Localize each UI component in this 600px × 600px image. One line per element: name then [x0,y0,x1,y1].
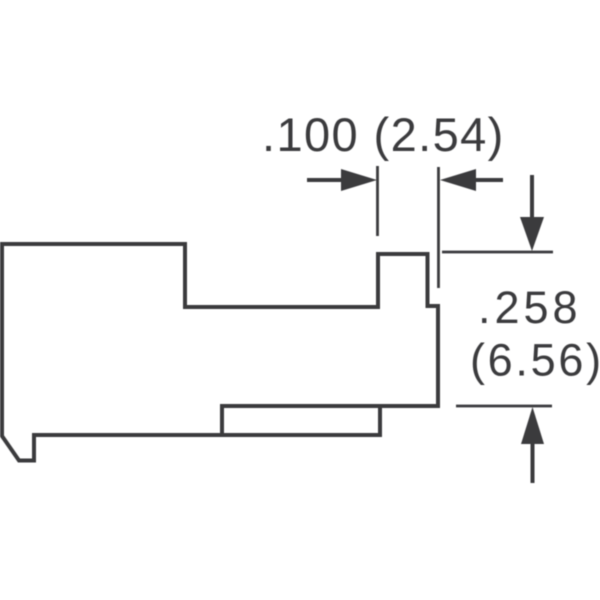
connector housing profile outline [2,244,438,461]
extension line right (x=438.5) [437,167,440,288]
svg-text:(6.56): (6.56) [470,335,600,386]
left arrow tail [307,178,344,182]
bottom reference line [456,405,552,408]
up arrowhead [521,407,544,444]
down arrow line [530,175,534,218]
svg-text:.258: .258 [478,282,582,333]
left arrowhead [341,169,377,191]
internal ledge edge [222,406,380,435]
down arrowhead [520,217,544,251]
extension line left (x=377.5) [376,166,379,236]
top reference line [442,251,553,254]
svg-text:.100 (2.54): .100 (2.54) [262,108,505,161]
right arrow tail [476,178,503,182]
right arrowhead [440,169,476,191]
up arrow line [531,444,535,483]
